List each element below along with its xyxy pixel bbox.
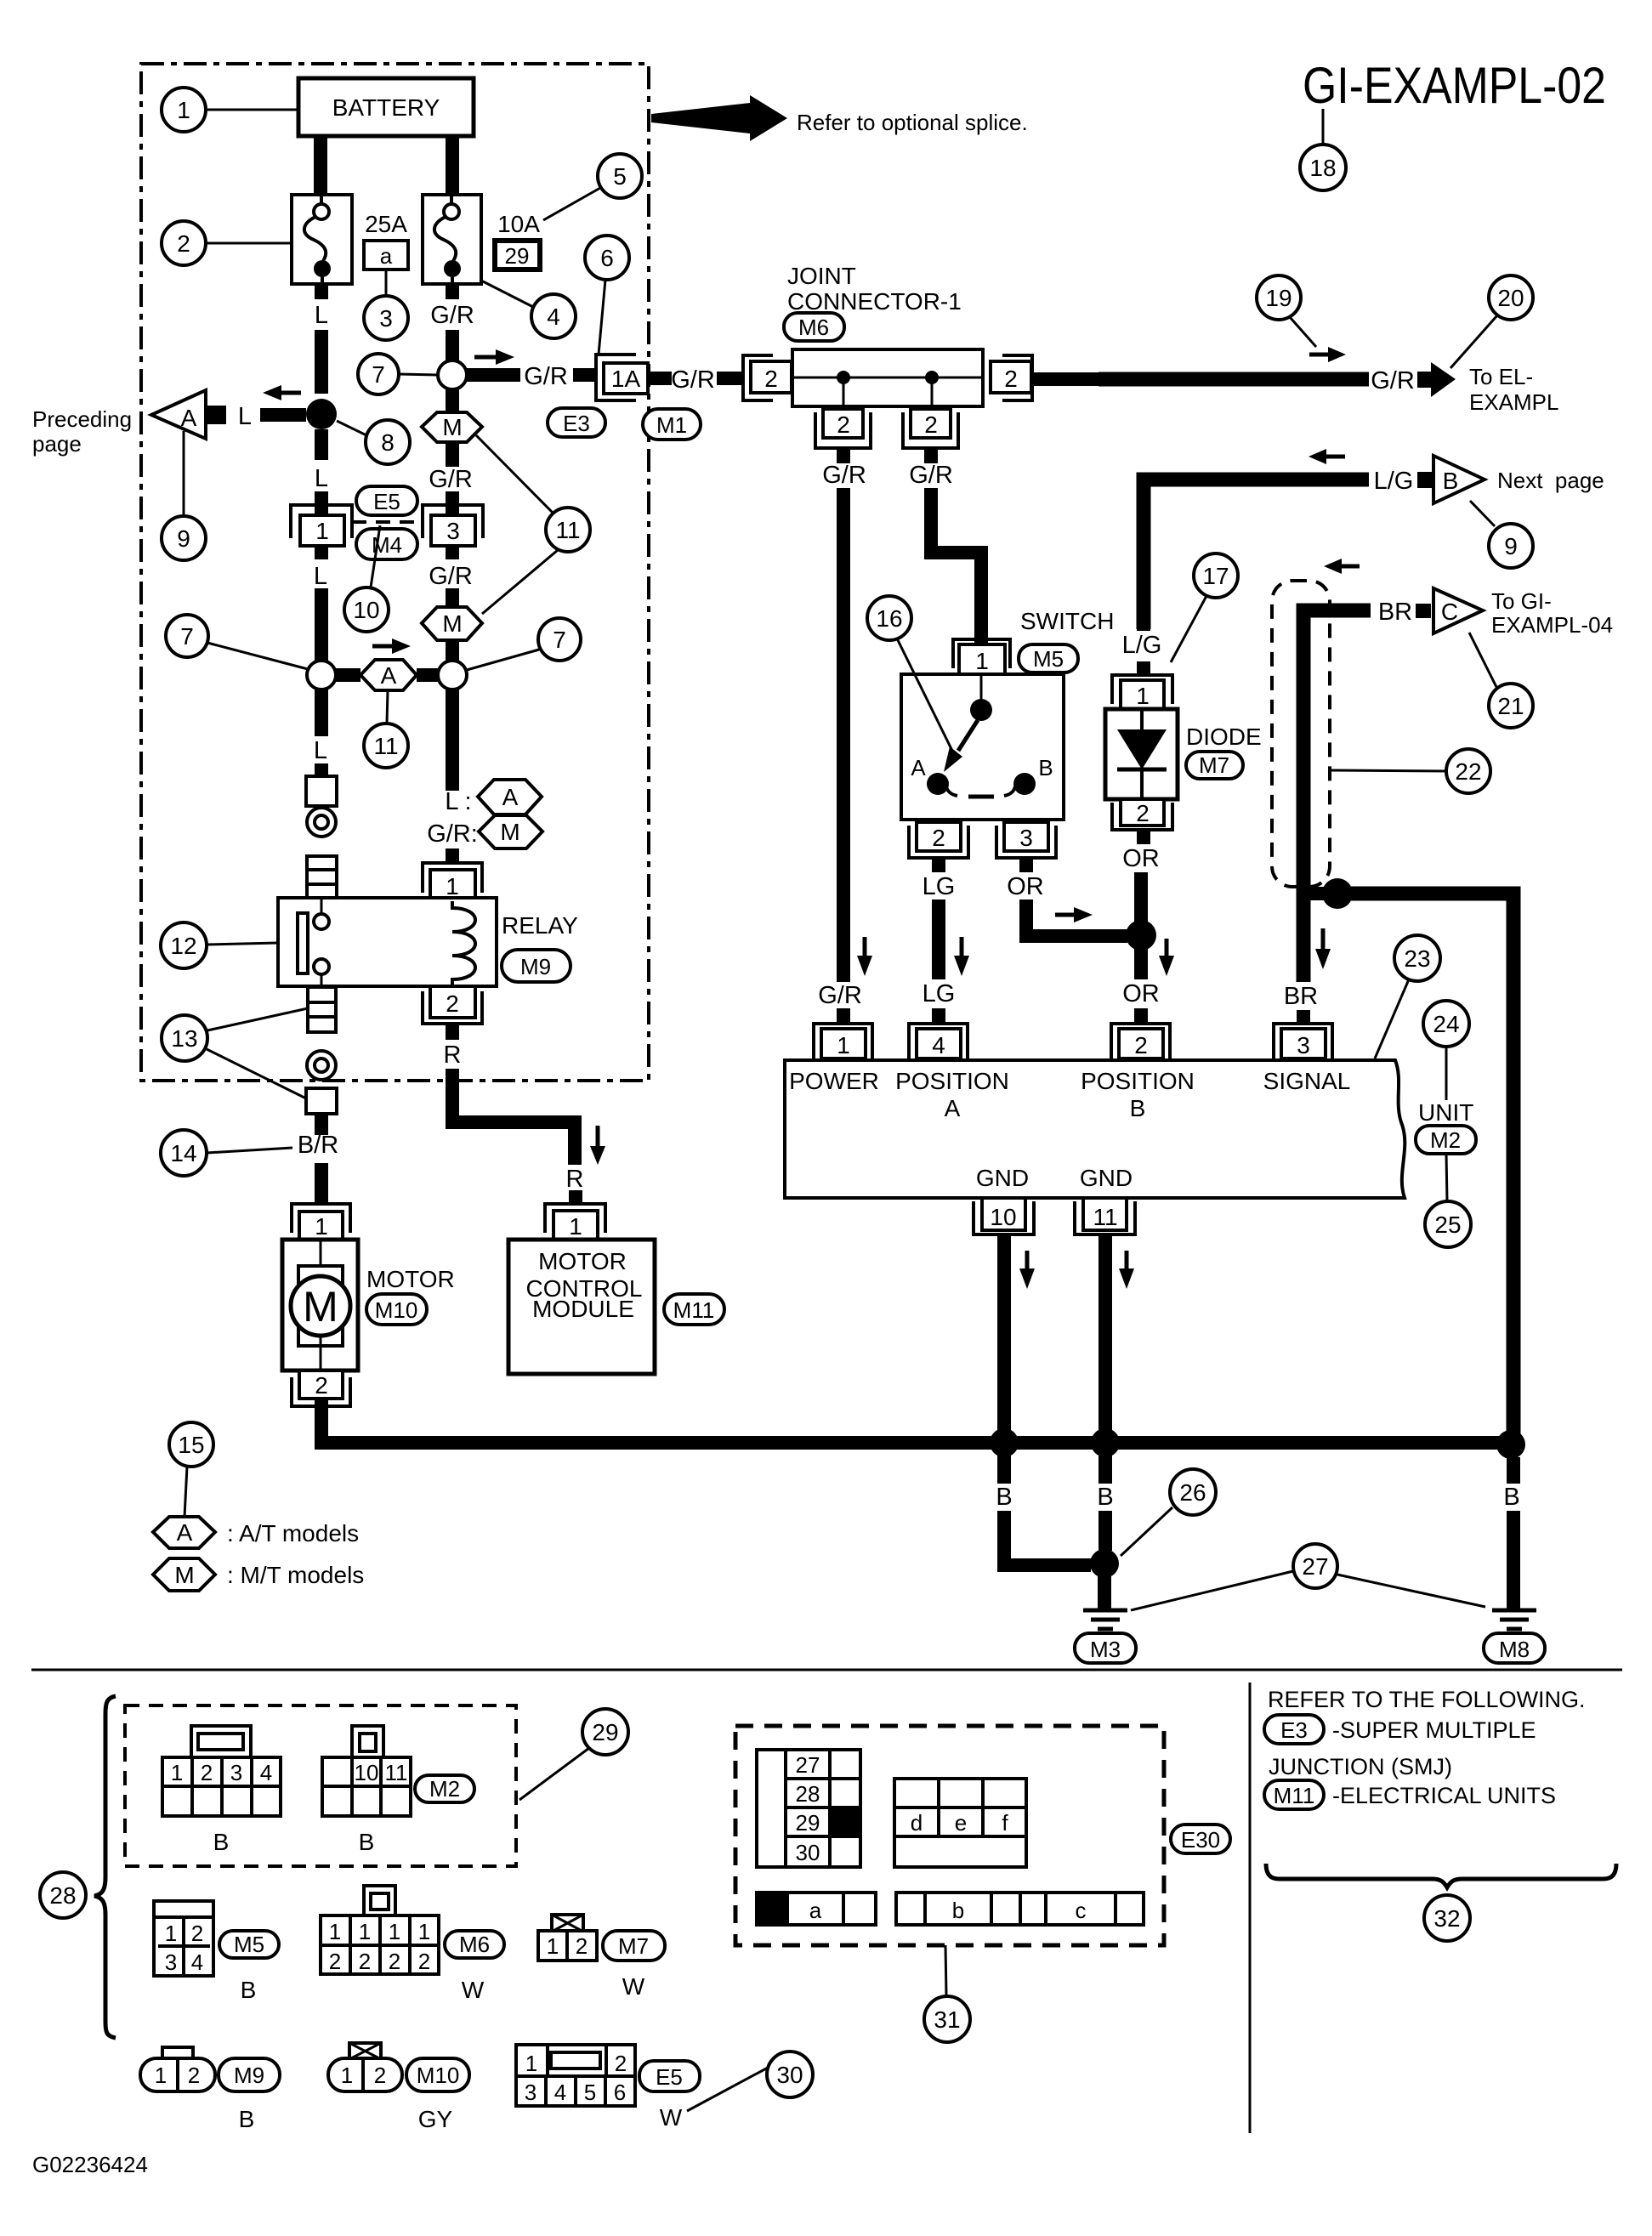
wire OR below node — [1134, 949, 1148, 979]
dashed option box — [1272, 581, 1330, 887]
unit M2 pin 2 — [1111, 1024, 1170, 1058]
svg-text:29: 29 — [796, 1810, 820, 1836]
svg-text:21: 21 — [1497, 693, 1524, 719]
svg-text:OR: OR — [1007, 873, 1044, 900]
fusible link hatch below relay — [308, 987, 336, 1032]
fusible link hatch above relay — [307, 856, 337, 898]
unit M2 pin 10 — [982, 1198, 1025, 1230]
svg-text:L: L — [238, 403, 252, 430]
svg-text:M1: M1 — [656, 412, 687, 438]
svg-text:3: 3 — [1019, 825, 1033, 851]
svg-text:26: 26 — [1179, 1479, 1206, 1506]
wire G/R drop from bottom pin right — [924, 448, 938, 463]
svg-text:B/R: B/R — [298, 1132, 338, 1159]
connector view M7 — [552, 1915, 583, 1932]
relay M9 pin 1 connector — [423, 863, 482, 893]
svg-text:28: 28 — [796, 1781, 820, 1807]
svg-text:G/R:: G/R: — [427, 820, 478, 848]
wire label G/R under F2 — [446, 284, 459, 299]
callout 18 — [1300, 145, 1346, 190]
svg-text:GND: GND — [976, 1165, 1029, 1191]
svg-text:POSITION: POSITION — [1081, 1068, 1195, 1094]
diode M7 body — [1105, 709, 1178, 799]
svg-text:1: 1 — [389, 1919, 400, 1944]
svg-text:12: 12 — [170, 933, 196, 959]
joint connector left pin 2 — [743, 355, 773, 400]
svg-text:11: 11 — [385, 1760, 408, 1785]
svg-text:9: 9 — [177, 525, 190, 552]
triangle connector A preceding page — [151, 390, 206, 439]
wire B/R to motor — [315, 1114, 328, 1135]
oval M7 view — [603, 1931, 665, 1961]
flow arrow left — [281, 391, 301, 395]
ground symbol M3 — [1083, 1609, 1127, 1613]
svg-text:18: 18 — [1309, 155, 1336, 181]
oval M4 — [356, 529, 417, 559]
callout 22 — [1446, 749, 1490, 793]
wire L below node to junction — [315, 546, 328, 559]
callout 25 — [1425, 1201, 1471, 1247]
svg-text:GND: GND — [1080, 1165, 1133, 1191]
svg-text:M: M — [442, 610, 462, 637]
wire G/R long to EL-EXAMPL — [1032, 372, 1098, 386]
svg-text:25: 25 — [1434, 1212, 1461, 1238]
svg-text:M: M — [303, 1283, 338, 1331]
connector view M2-A — [191, 1726, 251, 1759]
connector view M9 — [162, 2047, 193, 2060]
svg-text:L: L — [314, 563, 327, 590]
fuse box a — [364, 241, 408, 270]
callout 16 — [867, 596, 911, 640]
svg-text:R: R — [566, 1166, 584, 1193]
svg-text:2: 2 — [374, 2063, 386, 2088]
svg-text:REFER TO THE FOLLOWING.: REFER TO THE FOLLOWING. — [1268, 1687, 1586, 1712]
oval M5 view — [219, 1931, 279, 1958]
svg-text:E3: E3 — [563, 411, 590, 436]
svg-text:B: B — [1130, 1095, 1146, 1121]
svg-text:To GI-: To GI- — [1491, 588, 1552, 614]
svg-text:32: 32 — [1433, 1905, 1460, 1932]
svg-text:3: 3 — [1297, 1032, 1310, 1058]
svg-text:30: 30 — [776, 2062, 803, 2088]
switch arm — [958, 720, 978, 751]
callout 3 — [364, 296, 408, 340]
svg-text:MOTOR: MOTOR — [366, 1266, 455, 1292]
callout 20 — [1489, 275, 1533, 320]
fuse F1 25A — [292, 195, 352, 284]
svg-text:7: 7 — [372, 361, 385, 388]
svg-text:M: M — [500, 819, 519, 845]
svg-text:M: M — [174, 1562, 194, 1588]
motor control module M11 pin 1 — [545, 1204, 605, 1233]
svg-text:M5: M5 — [234, 1932, 264, 1957]
svg-text:EXAMPL-04: EXAMPL-04 — [1491, 612, 1613, 638]
oval M11 ref — [1264, 1780, 1324, 1809]
svg-text:2: 2 — [201, 1760, 213, 1785]
ground bus node dot right — [1496, 1430, 1525, 1459]
svg-text:14: 14 — [170, 1140, 196, 1166]
svg-text:G/R: G/R — [671, 366, 715, 394]
oval M6 — [784, 313, 844, 341]
diode M7 pin 1 — [1112, 675, 1172, 704]
connector view M10 — [349, 2043, 381, 2059]
svg-text:G02236424: G02236424 — [32, 2152, 148, 2177]
svg-text:M9: M9 — [234, 2063, 264, 2088]
flow arrow left above L/G — [1326, 455, 1345, 459]
motor M10 pin 1 — [292, 1204, 350, 1233]
svg-text:G/R: G/R — [429, 563, 473, 590]
hexagon M on G/R wire — [446, 389, 459, 414]
legend hexagon A — [153, 1517, 215, 1548]
svg-text:M9: M9 — [520, 954, 551, 979]
joint connector M6 body — [792, 349, 983, 406]
svg-text:B: B — [359, 1829, 375, 1855]
svg-text:JOINT: JOINT — [787, 263, 856, 289]
svg-text:29: 29 — [505, 243, 530, 269]
callout 17 — [1194, 553, 1238, 598]
svg-text:6: 6 — [614, 2080, 626, 2105]
callout 9 — [162, 516, 206, 560]
callout 4 — [531, 294, 576, 338]
terminal box upper — [306, 776, 337, 806]
callout 29 — [582, 1709, 628, 1755]
svg-text:A: A — [502, 784, 519, 810]
oval M9 — [502, 950, 571, 982]
connector view M6 — [364, 1886, 395, 1917]
svg-text:G/R: G/R — [822, 462, 866, 489]
terminal box lower — [306, 1088, 337, 1114]
svg-text:2: 2 — [177, 230, 190, 257]
svg-text:2: 2 — [837, 411, 850, 438]
svg-text:a: a — [380, 243, 393, 269]
svg-text:JUNCTION (SMJ): JUNCTION (SMJ) — [1269, 1754, 1452, 1779]
svg-text:R: R — [444, 1041, 462, 1069]
svg-text:A: A — [381, 662, 397, 689]
battery B1 — [298, 78, 474, 136]
svg-text:G/R: G/R — [909, 462, 953, 489]
svg-text:11: 11 — [555, 517, 580, 543]
wire G/R drop from bottom pin left — [837, 448, 850, 463]
oval M2 — [1416, 1126, 1476, 1154]
joint connector right pin 2 — [991, 361, 1031, 393]
svg-text:OR: OR — [1122, 845, 1160, 872]
flow arrow down R — [596, 1126, 600, 1146]
svg-text:2: 2 — [764, 366, 778, 392]
callout 7 upper — [358, 354, 399, 394]
wire BR to GI-EXAMPL-04 — [1303, 610, 1371, 982]
svg-text:A: A — [177, 1519, 193, 1546]
dashed box E30 — [735, 1726, 1164, 1945]
svg-text:DIODE: DIODE — [1186, 724, 1262, 750]
svg-text:1: 1 — [837, 1032, 850, 1058]
callout 23 — [1394, 935, 1440, 981]
motor control module M11 box — [508, 1240, 655, 1374]
svg-text:MOTOR: MOTOR — [538, 1248, 627, 1274]
flow arrow down GND 11 — [1125, 1251, 1129, 1268]
diode M7 pin 2 — [1121, 799, 1164, 826]
svg-text:2: 2 — [359, 1949, 371, 1974]
svg-text:B: B — [241, 1977, 257, 2003]
svg-text:M6: M6 — [798, 315, 829, 340]
svg-text:M7: M7 — [1199, 752, 1229, 778]
wire L to preceding page — [206, 406, 226, 424]
callout 21 — [1489, 684, 1533, 728]
svg-text:OR: OR — [1122, 980, 1160, 1007]
wire B from pin 10 — [997, 1234, 1011, 1432]
callout 31 — [924, 1996, 970, 2042]
svg-text:LG: LG — [923, 873, 956, 900]
switch pin 3 — [1004, 822, 1048, 851]
relay M9 pin 2 connector — [430, 986, 475, 1018]
node dot before ground M3 — [1090, 1549, 1119, 1578]
relay coil — [452, 901, 475, 986]
callout 5 — [598, 154, 642, 198]
svg-text:d: d — [911, 1810, 923, 1836]
flow arrow down GND 10 — [1025, 1251, 1030, 1268]
wire LG — [932, 858, 945, 872]
unit M2 pin 3 — [1274, 1024, 1332, 1058]
svg-text:16: 16 — [876, 605, 902, 632]
svg-text:B: B — [213, 1829, 230, 1855]
ground bus node dot mid — [1091, 1428, 1120, 1457]
svg-text:10: 10 — [355, 1760, 379, 1785]
oval M9 view — [219, 2058, 280, 2091]
svg-text:UNIT: UNIT — [1418, 1099, 1473, 1126]
oval M10 view — [406, 2058, 469, 2091]
wire OR from diode — [1137, 830, 1150, 844]
svg-text:1: 1 — [525, 2051, 537, 2076]
svg-text:27: 27 — [796, 1752, 820, 1778]
wire battery left L — [314, 134, 327, 195]
flow arrow right for 19 — [1309, 353, 1328, 357]
svg-text:B: B — [1503, 1484, 1519, 1511]
callout 6 — [585, 236, 629, 280]
svg-text:2: 2 — [418, 1949, 430, 1974]
svg-text:M3: M3 — [1090, 1637, 1121, 1662]
svg-text:L: L — [315, 465, 328, 492]
callout 7 left — [166, 615, 208, 657]
relay M9 box — [278, 898, 497, 986]
joint connector bottom pin 2 left — [823, 409, 863, 438]
motor M10 pin 2 — [299, 1371, 343, 1399]
switch swing dashed arc — [946, 786, 957, 796]
oval M8 — [1484, 1633, 1545, 1663]
svg-text:27: 27 — [1302, 1553, 1328, 1580]
flow arrow left above dashed box — [1342, 565, 1360, 569]
callout 1 — [162, 88, 206, 132]
dashed box M2 connectors — [125, 1705, 516, 1866]
svg-text:2: 2 — [1134, 1032, 1148, 1058]
svg-text:2: 2 — [1136, 800, 1150, 826]
svg-text:2: 2 — [615, 2051, 627, 2076]
flow arrow right above G/R — [474, 355, 496, 360]
svg-text:7: 7 — [180, 623, 194, 650]
svg-text:1: 1 — [315, 1213, 328, 1240]
callout 28 — [40, 1872, 86, 1918]
svg-text:4: 4 — [260, 1760, 272, 1785]
svg-text:W: W — [622, 1973, 645, 2000]
brace 32 — [1266, 1864, 1616, 1887]
svg-text:M10: M10 — [417, 2063, 460, 2088]
wire B from pin 11 — [1098, 1234, 1112, 1432]
svg-text:G/R: G/R — [818, 982, 862, 1009]
E30 fuse block rows — [757, 1750, 786, 1867]
oval E5 — [356, 486, 417, 515]
svg-text:M7: M7 — [618, 1933, 649, 1959]
wire B from motor to ground bus — [321, 1399, 1513, 1443]
svg-text:W: W — [462, 1977, 485, 2003]
svg-text:L/G: L/G — [1374, 468, 1414, 495]
callout 14 — [161, 1130, 207, 1176]
svg-text:22: 22 — [1455, 758, 1481, 785]
svg-text:1: 1 — [165, 1921, 177, 1946]
svg-text:6: 6 — [600, 245, 614, 271]
connector view E5 — [516, 2045, 635, 2106]
wire R from relay — [446, 1025, 459, 1040]
svg-text:1: 1 — [446, 873, 459, 900]
motor M10 body — [282, 1240, 358, 1371]
hexagon M second — [422, 607, 482, 640]
svg-text:B: B — [1443, 468, 1459, 494]
svg-text:3: 3 — [525, 2080, 536, 2105]
wire B left drop — [997, 1456, 1011, 1484]
svg-text:2: 2 — [191, 1921, 203, 1946]
svg-text:8: 8 — [381, 429, 395, 456]
svg-text:1: 1 — [418, 1919, 430, 1944]
wire OR from switch pin 3 — [1019, 858, 1033, 872]
oval M11 — [664, 1294, 724, 1325]
svg-text:Preceding: Preceding — [32, 406, 132, 432]
svg-text:A: A — [945, 1095, 961, 1121]
connector M4 pin 1 — [291, 505, 352, 538]
svg-text:19: 19 — [1265, 285, 1292, 311]
svg-text:13: 13 — [171, 1025, 197, 1052]
svg-text:3: 3 — [379, 305, 393, 332]
switch contact B — [1013, 773, 1036, 795]
oval E3 ref — [1264, 1715, 1324, 1744]
E30 row b c — [896, 1893, 1144, 1925]
svg-text:L: L — [314, 737, 327, 764]
svg-text:Refer to optional splice.: Refer to optional splice. — [797, 110, 1028, 135]
svg-text:L: L — [315, 302, 328, 329]
svg-text:B: B — [1038, 755, 1053, 780]
ground bus node dot left — [990, 1428, 1019, 1457]
connector view M2-B — [352, 1726, 383, 1759]
svg-text:M5: M5 — [1033, 646, 1064, 672]
svg-text:BR: BR — [1284, 983, 1318, 1010]
svg-text:1: 1 — [547, 1933, 559, 1959]
flow arrow down below node — [1321, 928, 1326, 949]
flow arrow right on OR — [1055, 913, 1074, 917]
relay contact points — [314, 914, 329, 929]
triangle connector B next page — [1433, 456, 1485, 503]
callout 32 — [1424, 1895, 1470, 1941]
svg-text:CONNECTOR-1: CONNECTOR-1 — [787, 288, 962, 315]
oval E3 — [548, 408, 605, 437]
vertical divider — [1249, 1683, 1252, 2133]
svg-text:25A: 25A — [365, 211, 407, 237]
svg-text:M11: M11 — [1274, 1783, 1315, 1808]
svg-text:2: 2 — [389, 1949, 400, 1974]
svg-text:POWER: POWER — [789, 1068, 879, 1094]
callout 8 — [366, 420, 410, 464]
svg-text:10: 10 — [353, 597, 379, 623]
node dot on L wire row 487 — [306, 399, 337, 429]
E30 def block — [894, 1779, 1026, 1867]
svg-text:11: 11 — [1093, 1204, 1117, 1230]
svg-text:17: 17 — [1202, 563, 1229, 589]
unit M2 box — [785, 1060, 1405, 1198]
svg-text:e: e — [955, 1810, 967, 1836]
svg-text:-SUPER MULTIPLE: -SUPER MULTIPLE — [1332, 1717, 1536, 1743]
svg-text:2: 2 — [1004, 366, 1018, 392]
flow arrow down beside G/R — [863, 937, 867, 956]
svg-text:4: 4 — [932, 1032, 945, 1058]
svg-text:29: 29 — [592, 1719, 618, 1745]
oval M6 view — [445, 1931, 504, 1958]
svg-text:B: B — [1097, 1484, 1113, 1511]
svg-text:24: 24 — [1433, 1011, 1459, 1037]
svg-text:C: C — [1441, 599, 1458, 625]
svg-text:f: f — [1002, 1810, 1008, 1836]
svg-text:30: 30 — [796, 1840, 820, 1865]
wire L to body terminal — [315, 690, 328, 736]
svg-text:4: 4 — [191, 1949, 203, 1975]
callout 7 right — [538, 618, 581, 661]
E30 row a — [757, 1893, 787, 1925]
wire label L under F1 — [315, 284, 328, 299]
svg-text:GY: GY — [418, 2106, 453, 2132]
switch M5 box — [901, 674, 1064, 820]
svg-text:20: 20 — [1497, 285, 1524, 311]
switch contact A — [927, 773, 949, 795]
unit M2 pin 11 — [1083, 1198, 1127, 1230]
hexagon A between junctions — [336, 668, 360, 682]
svg-text:11: 11 — [373, 733, 398, 759]
callout 19 — [1257, 275, 1301, 320]
switch M5 pin 1 — [953, 639, 1010, 668]
svg-text:1: 1 — [171, 1760, 183, 1785]
svg-text:1: 1 — [177, 97, 190, 123]
svg-text:M6: M6 — [459, 1932, 490, 1957]
svg-text:G/R: G/R — [1371, 367, 1415, 394]
svg-text:2: 2 — [188, 2063, 200, 2088]
svg-text:2: 2 — [315, 1372, 328, 1399]
oval M10 — [366, 1294, 427, 1325]
svg-text:M8: M8 — [1499, 1637, 1530, 1662]
svg-text:1: 1 — [155, 2063, 167, 2088]
svg-text:28: 28 — [49, 1882, 76, 1909]
callout 9 next page — [1489, 524, 1533, 568]
callout 2 — [162, 221, 206, 265]
svg-text:G/R: G/R — [429, 466, 473, 493]
svg-text:E3: E3 — [1280, 1717, 1308, 1743]
splice note arrow — [651, 95, 787, 141]
switch pivot dot — [970, 699, 992, 721]
svg-text:W: W — [660, 2104, 683, 2131]
wire B mid drop — [1098, 1456, 1112, 1484]
ground symbol M8 — [1492, 1609, 1536, 1613]
oval E30 — [1171, 1825, 1230, 1853]
svg-text:3: 3 — [446, 518, 460, 544]
callout 11 upper — [546, 508, 590, 552]
svg-text:2: 2 — [329, 1949, 341, 1974]
svg-text:BATTERY: BATTERY — [332, 94, 440, 121]
svg-text:15: 15 — [178, 1432, 204, 1458]
svg-text:E30: E30 — [1181, 1827, 1220, 1853]
junction open circle right — [438, 661, 467, 690]
svg-text:B: B — [996, 1484, 1012, 1511]
